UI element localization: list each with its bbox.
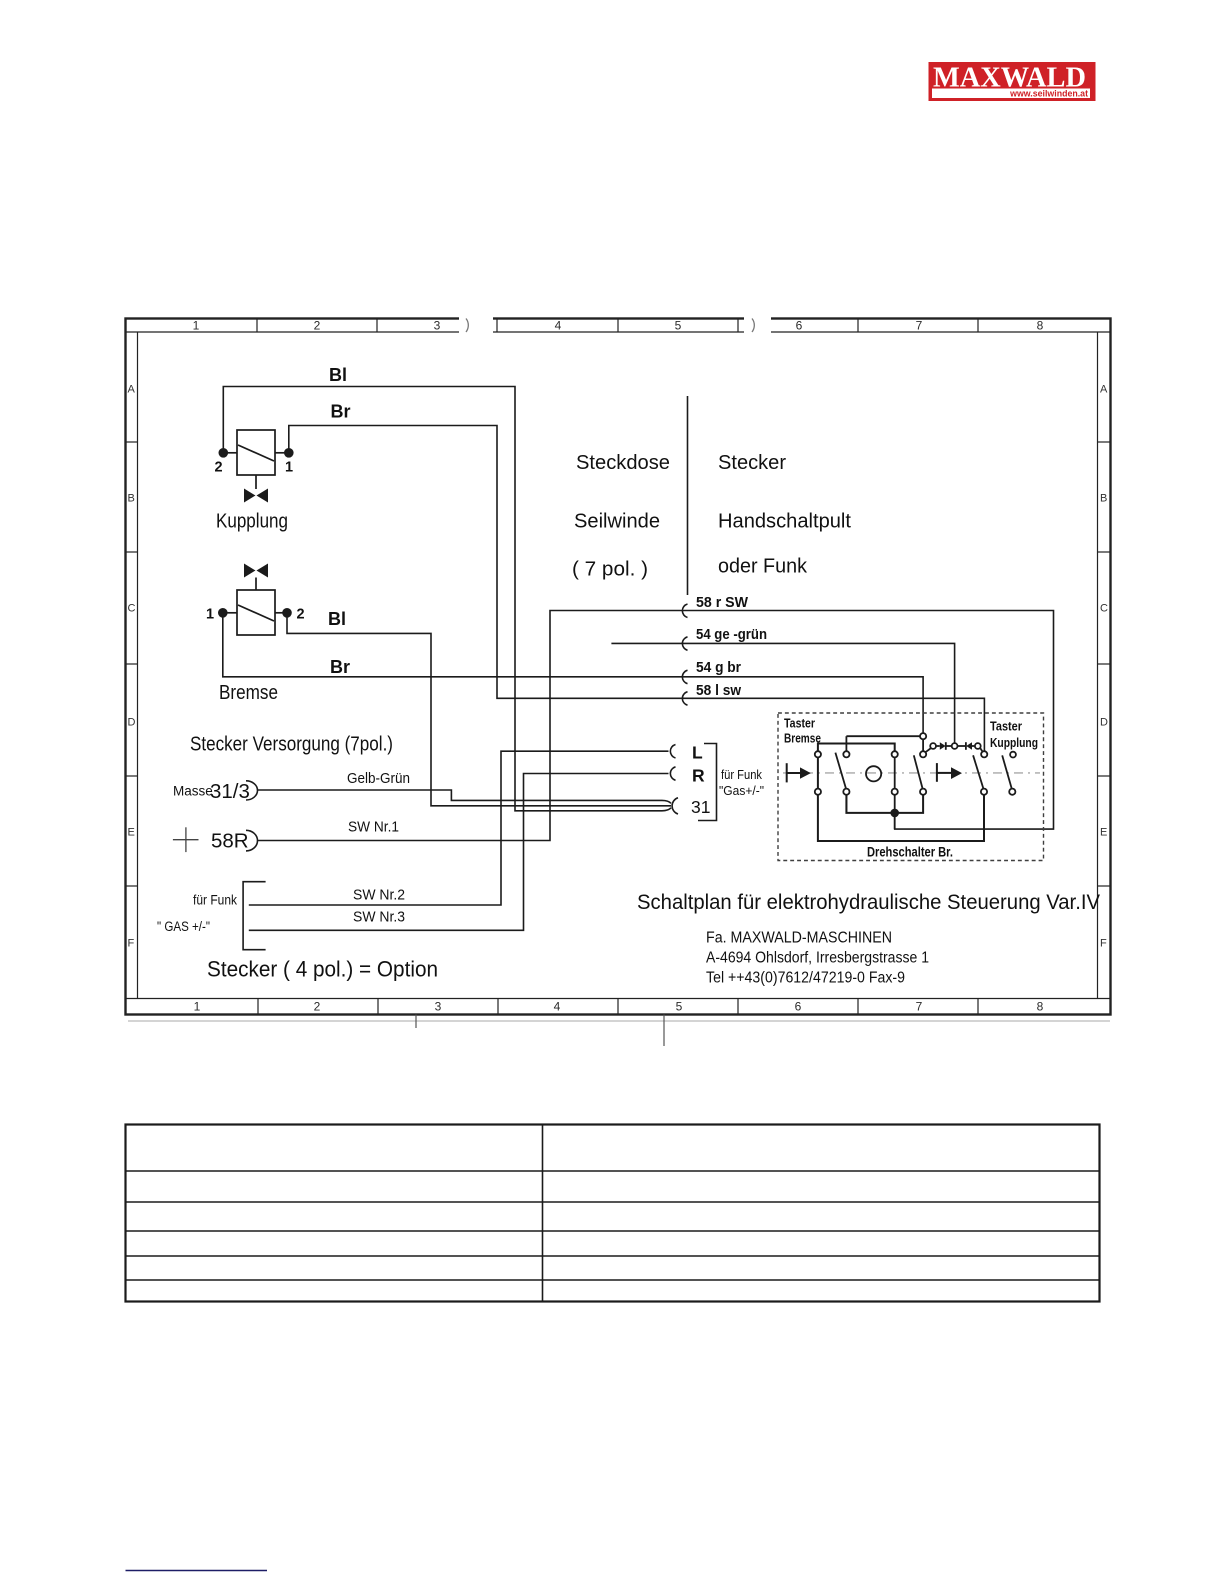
svg-text:Fa. MAXWALD-MASCHINEN: Fa. MAXWALD-MASCHINEN (706, 930, 892, 947)
svg-text:C: C (1100, 603, 1108, 615)
svg-text:B: B (128, 493, 135, 505)
svg-text:Tel ++43(0)7612/47219-0 Fax-9: Tel ++43(0)7612/47219-0 Fax-9 (706, 970, 905, 987)
switch spare contact (column F, floating) (1002, 752, 1016, 795)
svg-text:54 ge -grün: 54 ge -grün (696, 626, 767, 643)
Drehschalter outer contact frame (818, 744, 984, 842)
svg-text:54 g br: 54 g br (696, 659, 741, 676)
svg-text:1: 1 (206, 607, 214, 623)
side zone dividers (126, 442, 1111, 886)
svg-text:Gelb-Grün: Gelb-Grün (347, 770, 410, 787)
svg-text:SW Nr.1: SW Nr.1 (348, 819, 399, 836)
svg-text:Bl: Bl (329, 365, 347, 385)
pushbutton actuator Taster Kupplung (937, 763, 962, 782)
svg-text:A: A (128, 384, 136, 396)
svg-text:D: D (1100, 717, 1108, 729)
svg-text:für Funk: für Funk (721, 768, 763, 782)
svg-text:A-4694 Ohlsdorf, Irresbergstra: A-4694 Ohlsdorf, Irresbergstrasse 1 (706, 950, 929, 967)
svg-text:58 l sw: 58 l sw (696, 682, 741, 699)
svg-text:www.seilwinden.at: www.seilwinden.at (1009, 89, 1088, 99)
svg-text:Seilwinde: Seilwinde (574, 510, 660, 533)
wire Gelb-Gruen / Masse to terminal 31 (258, 770, 671, 803)
svg-text:58R: 58R (211, 830, 249, 853)
valve Kupplung (215, 430, 294, 533)
svg-text:Bremse: Bremse (784, 732, 821, 746)
column header texts (190, 451, 851, 982)
bottom ruler ticks (258, 999, 978, 1015)
svg-text:E: E (128, 827, 135, 839)
Maxwald logo (929, 62, 1096, 102)
svg-text:SW Nr.3: SW Nr.3 (353, 909, 405, 926)
svg-text:Bremse: Bremse (219, 681, 278, 704)
svg-text:31: 31 (691, 797, 710, 817)
svg-text:2: 2 (314, 319, 321, 333)
switch Taster Kupplung contact (column E) (973, 751, 987, 795)
svg-text:Bl: Bl (328, 609, 346, 629)
svg-text:C: C (128, 603, 136, 615)
top ruler ticks (257, 319, 978, 333)
svg-text:E: E (1100, 827, 1107, 839)
connector arcs on the four Stecker wires (682, 604, 687, 705)
svg-text:Handschaltpult: Handschaltpult (718, 510, 851, 533)
svg-text:6: 6 (795, 1000, 802, 1014)
svg-text:8: 8 (1037, 1000, 1044, 1014)
svg-text:Kupplung: Kupplung (216, 510, 288, 533)
svg-text:Drehschalter Br.: Drehschalter Br. (867, 844, 953, 860)
svg-text:31/3: 31/3 (210, 780, 250, 803)
svg-text:Taster: Taster (784, 717, 815, 731)
wire Bl Bremse (pin 2 to terminal 31) (287, 609, 671, 806)
svg-text:7: 7 (916, 1000, 923, 1014)
svg-text:6: 6 (796, 319, 803, 333)
svg-text:Taster: Taster (990, 720, 1022, 734)
inner contact bridge (column B to D bottom) (846, 795, 923, 813)
socket 31/3 (Masse) (173, 780, 258, 803)
wire Bl Kupplung (pin 2 to terminal 31) (223, 365, 671, 811)
svg-text:3: 3 (435, 1000, 442, 1014)
svg-text:1: 1 (285, 460, 293, 476)
closed contact column C with junction (890, 751, 899, 829)
svg-text:Br: Br (331, 402, 351, 422)
switch Drehschalter contact (column D) (914, 751, 926, 795)
svg-text:Stecker: Stecker (718, 451, 786, 474)
parts table (empty) (126, 1125, 1100, 1302)
wire 58R / SW Nr.1 / 58 r SW (258, 594, 1054, 841)
svg-text:4: 4 (554, 1000, 561, 1014)
branch 54 g br to column B and column D (846, 733, 926, 751)
svg-text:5: 5 (675, 319, 682, 333)
Taster dashed enclosure (778, 713, 1044, 861)
svg-text:1: 1 (194, 1000, 201, 1014)
svg-text:1: 1 (193, 319, 200, 333)
pushbutton actuator Taster Bremse (787, 763, 811, 782)
svg-text:F: F (1100, 938, 1107, 950)
svg-text:Schaltplan für elektrohydrauli: Schaltplan für elektrohydraulische Steue… (637, 890, 1101, 914)
diode D2 (right, cathode to center) (952, 742, 983, 751)
svg-text:4: 4 (555, 319, 562, 333)
svg-text:L: L (692, 743, 703, 763)
bracket Stecker 4pol (fuer Funk GAS) (157, 882, 266, 950)
svg-text:F: F (128, 938, 135, 950)
svg-text:5: 5 (676, 1000, 683, 1014)
wire Br Bremse / 54 g br (pin 1 to Taster Bremse) (223, 617, 923, 733)
wire SW Nr.2 to pin L (249, 751, 669, 905)
svg-text:7: 7 (916, 319, 923, 333)
svg-text:2: 2 (297, 607, 305, 623)
switch Taster Bremse contact (column B) (835, 736, 849, 813)
title block text (637, 890, 1101, 987)
svg-text:Br: Br (330, 657, 350, 677)
svg-text:Masse: Masse (173, 784, 213, 799)
svg-text:für Funk: für Funk (193, 893, 237, 908)
wire 54 ge-gruen (diode feed) (611, 626, 954, 743)
svg-text:3: 3 (434, 319, 441, 333)
svg-text:A: A (1100, 384, 1108, 396)
diode D1 (left, cathode to center) (926, 742, 952, 752)
footnote rule (126, 1570, 268, 1572)
socket 58R with crosshair (173, 827, 258, 852)
svg-text:Steckdose: Steckdose (576, 451, 670, 474)
svg-text:oder Funk: oder Funk (718, 555, 808, 578)
svg-text:2: 2 (215, 460, 223, 476)
svg-text:D: D (128, 717, 136, 729)
connector pins L / R / 31 with bracket (670, 743, 764, 821)
svg-text:Kupplung: Kupplung (990, 736, 1038, 750)
wire Br Kupplung / 58 l sw (pin 1 to Taster Kupplung) (289, 402, 985, 752)
svg-text:B: B (1100, 493, 1107, 505)
svg-text:( 7 pol. ): ( 7 pol. ) (572, 558, 648, 581)
svg-text:Stecker ( 4 pol.) = Option: Stecker ( 4 pol.) = Option (207, 957, 438, 982)
svg-text:58 r SW: 58 r SW (696, 594, 749, 611)
svg-text:"Gas+/-": "Gas+/-" (719, 784, 764, 798)
svg-text:SW Nr.2: SW Nr.2 (353, 887, 405, 904)
svg-text:8: 8 (1037, 319, 1044, 333)
svg-text:" GAS +/-": " GAS +/-" (157, 919, 210, 934)
svg-text:Stecker Versorgung (7pol.): Stecker Versorgung (7pol.) (190, 733, 393, 756)
contact column A terminals (815, 751, 821, 795)
svg-text:2: 2 (314, 1000, 321, 1014)
divider line Steckdose/Stecker (687, 396, 689, 595)
valve Bremse (206, 564, 305, 705)
rotary switch circle symbol (866, 766, 881, 781)
svg-text:R: R (692, 766, 705, 786)
wire SW Nr.3 to pin R (249, 774, 669, 931)
